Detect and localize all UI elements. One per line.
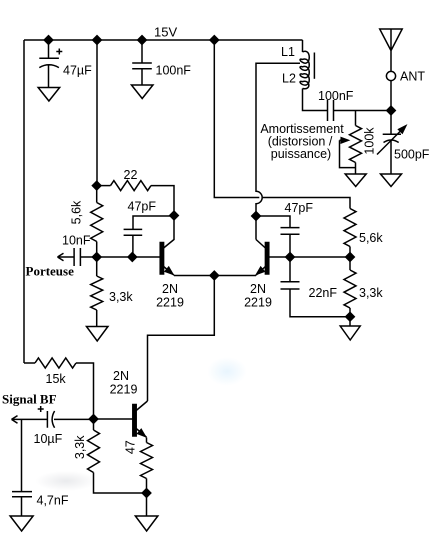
node: antenna line junction [387,106,396,115]
resistor R8 47 [146,438,148,443]
input arrow Signal BF [12,416,48,424]
svg-text:Signal BF: Signal BF [2,392,57,407]
node: R5 bottom [346,312,355,321]
svg-text:ANT: ANT [400,70,425,84]
antenna symbol [380,29,403,71]
svg-text:Porteuse: Porteuse [26,264,75,279]
svg-text:100nF: 100nF [318,89,354,103]
svg-text:2219: 2219 [156,296,184,310]
svg-text:500pF: 500pF [394,148,430,162]
wire: emitter bus down to Q3 collector [148,276,215,402]
svg-text:4,7nF: 4,7nF [37,494,69,508]
faint blue watermark remnant [207,357,247,386]
label Q1 2N 2219 [156,282,184,310]
svg-text:47µF: 47µF [63,64,92,78]
svg-text:5,6k: 5,6k [359,231,383,245]
wire: antenna feed line [390,81,392,111]
capacitor C7 47pF [256,216,300,257]
svg-text:5,6k: 5,6k [70,200,84,224]
wiper arrow [340,140,356,167]
wire: common emitter bus [174,275,256,277]
svg-text:15V: 15V [154,25,177,40]
wire: rail drop x=214 feeding 5,6k of stage 2 [214,40,350,209]
svg-text:2N: 2N [162,282,178,296]
svg-text:2219: 2219 [110,383,138,397]
node: Q3 base [89,415,98,424]
resistor R7 3,3k [93,419,95,430]
svg-text:47pF: 47pF [128,200,157,214]
svg-text:3,3k: 3,3k [109,290,133,304]
annotation Amortissement [260,122,344,161]
wire: rail to transformer L1 top [302,40,304,52]
svg-text:3,3k: 3,3k [359,286,383,300]
ground stage 2 [349,317,351,326]
svg-text:47pF: 47pF [285,201,314,215]
resistor R6 15k [24,362,35,364]
ground under C10 [10,516,33,531]
wire: left vertical rail [23,40,25,363]
svg-text:100k: 100k [363,127,377,155]
resistor R5 3,3k [349,257,351,270]
node: R1/R2 tee [92,181,101,190]
node: Q1 base [92,253,101,262]
svg-text:3,3k: 3,3k [73,435,87,459]
capacitor C6 10nF [74,248,97,266]
node: emitter resistor bottom [142,489,151,498]
label Q2 2N 2219 [244,282,272,310]
capacitor C8 22nF [281,257,351,317]
transistor Q1 2N2219 [97,216,174,276]
wire: rail drop to R1/R2 node [96,40,98,186]
capacitor C2 100nF decoupling [132,40,152,85]
transistor Q3 2N2219 [94,401,148,437]
svg-text:100nF: 100nF [156,64,192,78]
svg-text:22nF: 22nF [309,286,338,300]
potentiometer P1 100k (rheostat) [340,111,362,175]
ground under R3 [86,327,108,342]
svg-text:puissance): puissance) [271,147,331,161]
svg-text:15k: 15k [46,372,67,386]
capacitor C3 100nF coupling [328,100,392,121]
node: Q1 collector [170,211,179,220]
transistor Q2 2N2219 (mirrored) [256,240,350,276]
coil core bar [313,53,315,79]
svg-text:L1: L1 [281,45,295,59]
label Q3 2N 2219 [110,369,138,397]
wire: +15V top rail [24,39,303,41]
capacitor C4 500pF variable [377,111,406,175]
antenna terminal circle [386,71,395,80]
node: C5 on base line [128,253,137,262]
svg-text:10µF: 10µF [34,432,63,446]
inductor L1/L2 tapped coil [300,51,309,89]
node: rail junction at C1 [44,36,53,45]
wire: coil tap to Q2 collector, with hop over 15V feed line [256,63,300,239]
node: C7/C8 on base line [286,253,295,262]
faint watermark remnant [36,471,96,491]
svg-text:47: 47 [124,440,138,454]
capacitor C5 47pF feedback [124,216,174,257]
node: rail junction x=214 [210,36,219,45]
resistor R2 22 [97,185,111,187]
resistor R3 3,3k [96,257,98,276]
node: rail junction x=97 [93,36,102,45]
ground under C4 [381,174,402,187]
svg-text:2N: 2N [113,369,129,383]
node: emitter bus junction [210,271,219,280]
capacitor C9 10µF electrolytic [38,406,94,428]
ground under potentiometer [345,174,366,187]
node: rail junction at C2 [138,36,147,45]
svg-text:2N: 2N [250,282,266,296]
resistor R1 5,6k [96,186,98,203]
wire: coil bottom to coupling cap [303,89,328,111]
resistor R4 5,6k [344,209,356,247]
ground under R8 [146,493,148,516]
svg-text:22: 22 [124,168,138,182]
svg-text:10nF: 10nF [62,234,91,248]
capacitor C10 4,7nF [12,419,32,516]
node: divider node stage2 [346,253,355,262]
ground under C1 [38,88,60,102]
ground under C2 [131,85,153,99]
capacitor C1 47µF electrolytic [39,40,62,88]
node: tap/collector junction [252,212,261,221]
svg-text:L2: L2 [282,72,296,86]
svg-text:2219: 2219 [244,296,272,310]
input arrow Porteuse [58,253,75,261]
